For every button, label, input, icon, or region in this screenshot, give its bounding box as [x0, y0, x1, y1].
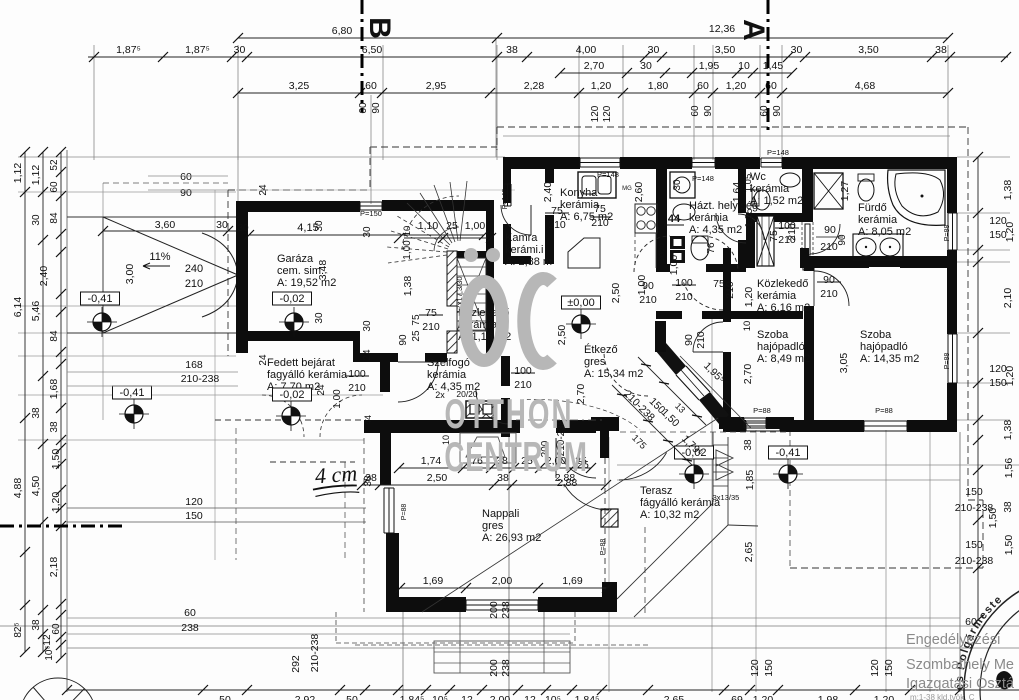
svg-text:3,60: 3,60: [155, 219, 176, 231]
nappali north wall right part: [556, 420, 596, 433]
hazt door swing: [738, 214, 764, 240]
svg-text:2,95: 2,95: [426, 80, 447, 92]
svg-text:210: 210: [675, 291, 693, 303]
svg-text:1,95: 1,95: [699, 60, 720, 72]
svg-text:4 cm: 4 cm: [314, 460, 358, 488]
svg-text:P=88: P=88: [600, 539, 607, 556]
kitchen sink: [578, 172, 616, 198]
konyha east wall: [656, 169, 667, 268]
svg-text:2,40: 2,40: [38, 266, 50, 287]
svg-text:24: 24: [258, 354, 269, 366]
terrace east dashed edge: [644, 527, 646, 614]
svg-text:2,10: 2,10: [1002, 288, 1014, 309]
stair block right wall: [486, 200, 494, 360]
room label nappali: [482, 508, 541, 544]
main top wall 2: [620, 157, 692, 169]
room label etkezo: [584, 343, 643, 380]
svg-text:1,84⁵: 1,84⁵: [575, 694, 600, 700]
svg-text:A: 8,49 m2: A: 8,49 m2: [757, 353, 810, 365]
dim row 1 above nappali: [394, 463, 596, 473]
row4 labels: [289, 80, 876, 92]
bath door labels: [816, 224, 848, 253]
ramp width labels: [185, 263, 203, 290]
svg-text:3,48: 3,48: [317, 260, 329, 281]
svg-text:38: 38: [363, 475, 374, 487]
elevation marker: [773, 459, 803, 489]
bath top wall: [894, 157, 957, 169]
svg-text:12: 12: [524, 694, 536, 700]
etkezo corner wall: [655, 321, 666, 352]
svg-text:kerámia: kerámia: [750, 183, 790, 195]
svg-text:Szombathely Me: Szombathely Me: [906, 657, 1014, 673]
svg-text:1,05: 1,05: [743, 174, 754, 193]
svg-text:fagyálló kerámia: fagyálló kerámia: [267, 369, 348, 381]
door size label: [545, 205, 569, 231]
svg-text:120: 120: [185, 496, 203, 508]
hazt wc oval: [691, 236, 709, 260]
svg-text:1,50: 1,50: [50, 449, 62, 470]
level label: [273, 388, 312, 401]
frac 75 210 kamra2: [590, 203, 611, 229]
svg-text:12: 12: [461, 694, 473, 700]
svg-text:150: 150: [763, 659, 775, 677]
szelfogo-etkezo door swing: [476, 390, 510, 424]
ramp slope arrow: [143, 251, 171, 269]
bay diagonal dim lines: [612, 357, 706, 465]
szoba2 door leaf: [813, 271, 815, 306]
right rot labels: [987, 180, 1016, 556]
svg-text:1,84⁵: 1,84⁵: [400, 694, 425, 700]
door size label: [817, 274, 841, 300]
konyha south wall 2: [706, 264, 746, 272]
svg-text:200: 200: [488, 601, 500, 619]
svg-text:84: 84: [49, 330, 60, 342]
stair fan: [387, 181, 467, 263]
svg-text:P=88: P=88: [401, 504, 408, 521]
svg-text:1,20: 1,20: [50, 492, 62, 513]
svg-text:2,70: 2,70: [742, 364, 754, 385]
row3 labels: [584, 60, 784, 72]
150 dim line: [67, 521, 366, 523]
handwritten 4 cm note: [311, 460, 359, 496]
left dim col 3: [56, 147, 66, 663]
bedroom south wall 2: [780, 420, 864, 432]
svg-text:120: 120: [989, 215, 1007, 227]
garage bottom wall: [236, 331, 360, 341]
room label kozlekedo small: [458, 307, 511, 343]
svg-text:90: 90: [703, 105, 714, 117]
svg-text:12,36: 12,36: [709, 23, 735, 35]
svg-text:Konyha: Konyha: [560, 187, 598, 199]
svg-text:A: 2,88 m: A: 2,88 m: [505, 256, 552, 268]
elevation marker: [119, 399, 149, 429]
svg-text:75: 75: [768, 230, 780, 242]
svg-text:30: 30: [314, 312, 325, 324]
svg-text:3,50: 3,50: [715, 44, 736, 56]
bath door pier hatched: [803, 257, 814, 270]
hazt sink oval: [673, 204, 695, 220]
svg-text:210: 210: [348, 382, 366, 394]
kamra east wall: [545, 169, 554, 183]
svg-text:Nappali: Nappali: [482, 508, 519, 520]
etkezo bay door swing: [604, 352, 648, 396]
kitchen stove: [635, 204, 657, 233]
svg-text:kerámi.i: kerámi.i: [505, 244, 544, 256]
svg-text:hajópadló: hajópadló: [757, 341, 805, 353]
svg-text:-0,41: -0,41: [119, 387, 144, 399]
svg-text:gres: gres: [482, 520, 504, 532]
kozlekedo arc: [684, 282, 724, 310]
svg-text:MG: MG: [622, 186, 632, 192]
svg-text:44: 44: [668, 213, 681, 225]
svg-text:210: 210: [786, 223, 798, 241]
watermark OC logo: [464, 248, 552, 364]
svg-text:Szélfogó: Szélfogó: [427, 357, 470, 369]
svg-text:OTTHON: OTTHON: [445, 390, 574, 437]
hazt boiler squares: [670, 236, 685, 263]
svg-text:3,50: 3,50: [858, 44, 879, 56]
svg-text:200: 200: [488, 659, 500, 677]
svg-text:90: 90: [371, 102, 382, 114]
twin sinks: [853, 234, 903, 260]
svg-text:1,10: 1,10: [418, 220, 439, 232]
kamra west window P=148: [504, 184, 511, 206]
garage left wall: [236, 201, 248, 353]
etkezo east wall: [723, 248, 731, 322]
left dim extension vertical: [66, 150, 68, 692]
inter-bedroom wall: [804, 306, 814, 420]
terasz small dims: [557, 459, 589, 489]
bath east window P=88: [948, 213, 957, 250]
svg-text:A: 6,16 m2: A: 6,16 m2: [757, 302, 810, 314]
konyha south door swing: [634, 236, 670, 272]
svg-text:P=150: P=150: [360, 209, 382, 218]
left col3 labels: [42, 159, 62, 661]
left mid dims: [180, 171, 683, 366]
garage bottom step wall: [353, 331, 360, 362]
label 44: [664, 213, 684, 225]
terrace door swing 2: [619, 453, 667, 481]
szelfogo west wall: [380, 362, 390, 392]
svg-text:12: 12: [42, 634, 53, 646]
fridge line: [599, 238, 601, 268]
svg-text:2,50: 2,50: [556, 325, 568, 346]
level label: [81, 292, 120, 305]
svg-text:1,87⁵: 1,87⁵: [185, 44, 210, 56]
svg-text:1,68: 1,68: [48, 379, 60, 400]
svg-text:75: 75: [551, 205, 563, 217]
level label: [562, 296, 601, 309]
svg-text:±0,00: ±0,00: [567, 297, 594, 309]
level label: [675, 446, 714, 459]
svg-text:90: 90: [837, 234, 848, 246]
section line A: [737, 0, 770, 130]
svg-text:90: 90: [824, 224, 836, 236]
door size label: [419, 307, 443, 333]
svg-text:1,20: 1,20: [726, 80, 747, 92]
svg-text:1,27: 1,27: [839, 181, 851, 202]
svg-text:Szoba: Szoba: [757, 329, 789, 341]
svg-text:m:1-38 kld.tvök. C: m:1-38 kld.tvök. C: [910, 693, 975, 700]
svg-text:210: 210: [724, 281, 736, 299]
svg-text:1,00: 1,00: [668, 255, 680, 276]
svg-text:P=148: P=148: [502, 189, 509, 210]
nappali west window P=88: [384, 488, 394, 533]
svg-text:210-238: 210-238: [309, 634, 321, 673]
svg-text:-0,41: -0,41: [775, 447, 800, 459]
svg-text:3,05: 3,05: [838, 353, 850, 374]
bath south wall 2: [900, 260, 957, 268]
stair landing wall: [457, 251, 494, 258]
svg-text:P=88: P=88: [944, 353, 951, 370]
svg-text:2,65: 2,65: [664, 694, 685, 700]
stair hatched wall lower: [447, 331, 457, 353]
nappali south wall left: [386, 597, 466, 612]
svg-text:1,69: 1,69: [562, 575, 583, 587]
svg-text:1,25: 1,25: [744, 208, 755, 228]
bottom rot labels: [181, 496, 895, 677]
stair block top wall: [382, 200, 494, 211]
rot labels under top dims: [358, 102, 783, 122]
svg-text:-0,41: -0,41: [87, 293, 112, 305]
svg-text:24: 24: [316, 384, 327, 396]
svg-text:150: 150: [965, 539, 983, 551]
svg-text:Garáza: Garáza: [277, 253, 314, 265]
hazt east wall lower: [738, 240, 746, 268]
driveway ramp outline: [67, 217, 238, 333]
svg-text:2,00: 2,00: [492, 575, 513, 587]
top dim row 4: [233, 88, 953, 98]
kamra door swing: [501, 205, 531, 235]
bottom dim chain: [62, 685, 1019, 695]
svg-text:25: 25: [446, 220, 458, 232]
svg-text:1,12: 1,12: [30, 165, 42, 186]
svg-text:2,92: 2,92: [295, 694, 316, 700]
room label kamra: [505, 232, 552, 268]
terrace pillar hatched: [601, 509, 618, 527]
room label terasz: [640, 485, 721, 521]
svg-text:fágyálló kerámia: fágyálló kerámia: [640, 497, 721, 509]
svg-text:90: 90: [683, 334, 695, 346]
svg-text:1,38: 1,38: [1002, 420, 1014, 441]
svg-text:75: 75: [425, 307, 437, 319]
svg-text:210-238: 210-238: [955, 502, 994, 514]
svg-text:1,85: 1,85: [744, 470, 756, 491]
svg-text:A: A: [737, 19, 770, 41]
elevation marker: [87, 307, 117, 337]
bath south wall: [809, 260, 869, 268]
row2 above nappali labels: [365, 472, 575, 484]
washing machine: [670, 172, 695, 198]
left dim col 1: [20, 147, 30, 657]
main east wall lower: [947, 383, 957, 432]
svg-text:60: 60: [184, 607, 196, 619]
svg-text:Engedélyezési: Engedélyezési: [906, 632, 1000, 648]
szoba2 top wall: [814, 256, 947, 267]
svg-text:30: 30: [31, 214, 42, 226]
nappali south dims: [395, 575, 612, 593]
stair dims: [398, 220, 485, 346]
door size label: [511, 365, 535, 391]
svg-text:38: 38: [1003, 501, 1014, 513]
kamra south wall: [503, 256, 531, 264]
svg-text:238: 238: [500, 601, 512, 619]
svg-text:A: 4,35 m2: A: 4,35 m2: [689, 224, 742, 236]
konyha south wall: [656, 264, 670, 272]
misc rot labels: [575, 353, 850, 563]
kamra west wall lower: [503, 224, 511, 264]
top dim row 3: [555, 68, 797, 78]
svg-text:120: 120: [989, 363, 1007, 375]
nappali north door swing: [556, 438, 596, 478]
dim 168 210-238: [67, 359, 238, 386]
svg-text:38: 38: [506, 44, 518, 56]
entry north wall piece: [353, 353, 398, 362]
bay diagonal wall upper: [655, 343, 686, 375]
stamp crest blob: [996, 671, 1013, 689]
svg-text:kerámia: kerámia: [689, 212, 729, 224]
svg-text:76: 76: [706, 242, 717, 254]
svg-text:24: 24: [258, 184, 269, 196]
svg-text:1,20: 1,20: [753, 694, 774, 700]
svg-text:CENTRUM: CENTRUM: [444, 433, 587, 480]
svg-text:60: 60: [365, 80, 377, 92]
svg-text:Közlekedő: Közlekedő: [757, 278, 808, 290]
room label fedett bejarat: [267, 357, 348, 393]
szoba2 east window P=88: [948, 334, 957, 383]
row above nappali labels: [421, 455, 587, 467]
svg-text:30: 30: [216, 219, 228, 231]
svg-text:38: 38: [743, 439, 754, 451]
hazt window P=148: [692, 158, 715, 167]
left col1 labels: [12, 163, 24, 638]
svg-text:1,45: 1,45: [763, 60, 784, 72]
svg-text:50: 50: [346, 694, 358, 700]
main block top wall: [503, 157, 580, 169]
nappali west wall lower: [386, 533, 399, 607]
svg-text:100: 100: [514, 365, 532, 377]
svg-text:Fürdő: Fürdő: [858, 202, 887, 214]
svg-text:6,50: 6,50: [362, 44, 383, 56]
dim 44 etc: [316, 384, 374, 487]
svg-text:2,60: 2,60: [633, 182, 645, 203]
svg-text:A: 1,52 m2: A: 1,52 m2: [750, 195, 803, 207]
svg-text:82⁵: 82⁵: [13, 622, 24, 637]
right dim col: [973, 152, 983, 625]
svg-text:120: 120: [749, 659, 761, 677]
svg-text:2,00: 2,00: [490, 694, 511, 700]
terrace edge diagonals: [617, 356, 758, 617]
svg-text:Terasz: Terasz: [640, 485, 672, 497]
svg-text:120: 120: [869, 659, 881, 677]
svg-text:60: 60: [180, 171, 192, 183]
svg-text:10: 10: [738, 60, 750, 72]
north circle: [20, 678, 96, 700]
elevation marker: [279, 307, 309, 337]
main east wall: [947, 157, 957, 213]
svg-text:38: 38: [49, 421, 60, 433]
porch axis dash: [516, 419, 602, 421]
south patio steps: [355, 612, 648, 673]
svg-text:150: 150: [989, 377, 1007, 389]
wc toilet: [752, 190, 770, 210]
svg-text:10: 10: [742, 321, 753, 332]
svg-text:P=148: P=148: [597, 170, 619, 179]
svg-text:A: 14,35 m2: A: 14,35 m2: [860, 353, 919, 365]
svg-text:kerámia: kerámia: [427, 369, 467, 381]
terrace T wall: [591, 417, 619, 431]
svg-text:38: 38: [31, 407, 42, 419]
left dim col 2: [38, 147, 48, 657]
etkezo east wall lower: [723, 352, 731, 420]
level label: [769, 446, 808, 459]
svg-text:60: 60: [697, 80, 709, 92]
svg-text:1,38: 1,38: [402, 276, 414, 297]
elevation marker: [276, 401, 306, 431]
kamra west wall: [503, 169, 511, 203]
roof eave dashed outline: [103, 95, 983, 643]
room label hazt: [689, 200, 758, 236]
szoba1 top wall: [723, 311, 803, 319]
dim row 2 above nappali: [357, 480, 611, 490]
svg-text:30: 30: [791, 44, 803, 56]
terrace door swing 1: [564, 484, 609, 510]
svg-text:25: 25: [411, 330, 422, 342]
svg-text:2,70: 2,70: [584, 60, 605, 72]
svg-text:30: 30: [237, 223, 249, 234]
kitchen interior dims: [542, 174, 851, 345]
svg-text:-0,02: -0,02: [279, 293, 304, 305]
left col2 labels: [30, 165, 42, 631]
dim 100 210 szelfogo left: [356, 564, 358, 566]
svg-text:1,69: 1,69: [423, 575, 444, 587]
svg-text:150: 150: [883, 659, 895, 677]
hazt east wall: [738, 169, 746, 213]
nappali southeast corner: [602, 582, 617, 604]
svg-text:2,65: 2,65: [743, 542, 755, 563]
svg-text:168: 168: [185, 359, 203, 371]
svg-text:100: 100: [348, 368, 366, 380]
svg-text:75: 75: [594, 203, 606, 215]
stair hatched wall upper: [447, 251, 457, 306]
svg-text:1,20: 1,20: [591, 80, 612, 92]
svg-text:-0,02: -0,02: [279, 389, 304, 401]
svg-text:30: 30: [314, 220, 325, 232]
bay window P=88: [744, 418, 766, 428]
stair top dim line: [394, 233, 496, 243]
svg-text:1,20: 1,20: [743, 287, 755, 308]
level label: [113, 386, 152, 399]
svg-text:30: 30: [362, 226, 373, 238]
svg-text:90: 90: [398, 334, 409, 346]
kitchen window P=148: [580, 158, 620, 167]
svg-text:150: 150: [989, 229, 1007, 241]
svg-text:30: 30: [362, 320, 373, 332]
kamra door leaf: [530, 205, 532, 235]
svg-text:2,28: 2,28: [524, 80, 545, 92]
nappali west dashed eave: [363, 438, 365, 612]
svg-text:210: 210: [514, 379, 532, 391]
diag dims: [621, 360, 727, 459]
stamp office text: [906, 632, 1015, 700]
svg-text:150: 150: [185, 510, 203, 522]
svg-text:4,00: 4,00: [576, 44, 597, 56]
garage top dim 4,15: [237, 222, 489, 240]
room label wc: [750, 171, 803, 207]
entry door leaf: [398, 361, 438, 363]
svg-text:30: 30: [640, 60, 652, 72]
terrace T wall stem: [600, 427, 609, 458]
